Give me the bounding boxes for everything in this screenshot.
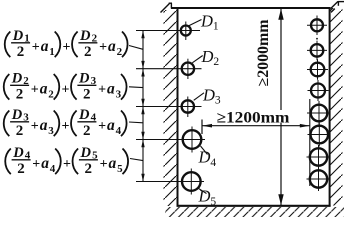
svg-text:2: 2 [23,75,29,87]
leader D5 [198,188,206,193]
right wall hatch [330,8,343,206]
svg-text:+: + [31,83,39,98]
svg-text:1: 1 [49,46,55,58]
pipe D3 [182,97,194,118]
dimension chain line [142,31,144,182]
svg-text:2: 2 [83,86,91,102]
svg-text:a: a [40,117,48,134]
dimension 2000mm line [280,9,282,206]
svg-text:3: 3 [91,75,97,87]
connector formula1 [129,46,143,50]
leader D2 [192,56,202,63]
svg-text:D: D [12,145,24,161]
svg-text:+: + [100,157,108,172]
ceiling left break step [161,3,173,12]
connector formula3 [129,121,143,124]
right pipe R1 [307,16,327,36]
leader D3 [194,93,204,101]
formula row 1 [5,28,128,60]
pipe D2 [182,59,194,79]
svg-text:+: + [32,40,40,55]
dimension 1200mm line [202,125,310,127]
svg-text:D: D [79,28,91,44]
extension line D2 [136,68,202,70]
right pipe R4 [308,80,329,101]
svg-text:2: 2 [85,161,93,177]
svg-text:+: + [63,40,71,55]
extension line D5 [136,181,204,183]
floor hatch [165,207,344,217]
svg-text:2: 2 [17,161,25,177]
pipe D5 [182,169,201,195]
right pipe R5 [307,101,330,125]
connector formula4 [130,159,143,161]
svg-text:2: 2 [17,44,25,60]
svg-text:1: 1 [24,33,30,45]
left wall hatch [164,10,178,206]
svg-text:a: a [108,38,116,55]
connector formula2 [129,86,143,89]
centerline dot [316,38,318,40]
svg-text:D: D [78,71,90,87]
pipe D1 [181,22,191,41]
right pipe R2 [307,41,327,61]
leader D4 [201,146,208,155]
svg-text:D: D [11,71,23,87]
svg-text:4: 4 [91,112,97,124]
svg-text:D: D [80,145,92,161]
svg-text:D: D [11,107,23,123]
svg-text:+: + [62,119,70,134]
right pipe column tangent line [309,99,311,186]
svg-text:+: + [31,119,39,134]
svg-text:3: 3 [23,112,29,124]
floor line [177,205,331,207]
extension line D1 [136,30,200,32]
extension line D4 [136,139,205,141]
svg-text:+: + [32,157,40,172]
svg-text:a: a [40,81,48,98]
formula row 2 [4,71,127,103]
svg-text:a: a [109,155,117,172]
right pipe R6 [308,123,331,147]
svg-text:≥1200mm: ≥1200mm [217,109,290,126]
svg-text:2: 2 [16,86,24,102]
2000mm top arrow [278,9,283,20]
svg-text:≥2000mm: ≥2000mm [255,19,272,86]
svg-text:a: a [107,117,115,134]
svg-text:+: + [63,157,71,172]
1200mm left arrow [202,124,212,128]
svg-text:+: + [62,83,70,98]
right pipe R8 [307,167,331,191]
2000mm bottom arrow [278,194,283,205]
extension line D3 [136,106,202,108]
svg-text:2: 2 [83,123,91,139]
svg-text:a: a [107,81,115,98]
svg-text:2: 2 [92,33,98,45]
pipe D4 [183,127,202,153]
ceiling right break step [331,1,344,12]
left wall face [177,7,179,206]
leader D1 [189,20,202,26]
right pipe R7 [307,145,331,169]
svg-text:+: + [98,119,106,134]
svg-text:4: 4 [25,150,31,162]
formula row 4 [5,145,128,177]
svg-text:2: 2 [84,44,92,60]
right wall face [329,7,331,206]
svg-text:a: a [41,155,49,172]
svg-text:+: + [99,40,107,55]
svg-text:2: 2 [16,123,24,139]
right pipe R3 [307,59,328,80]
1200mm right arrow [300,124,310,128]
ceiling line [171,7,330,9]
svg-text:5: 5 [92,150,98,162]
svg-text:+: + [98,83,106,98]
svg-text:D: D [12,28,24,44]
formula row 3 [4,107,127,139]
white backing for 1200 label [216,110,290,123]
1200mm left tick [201,120,203,135]
chain arrows [141,31,144,182]
svg-text:a: a [41,38,49,55]
svg-text:D: D [78,107,90,123]
